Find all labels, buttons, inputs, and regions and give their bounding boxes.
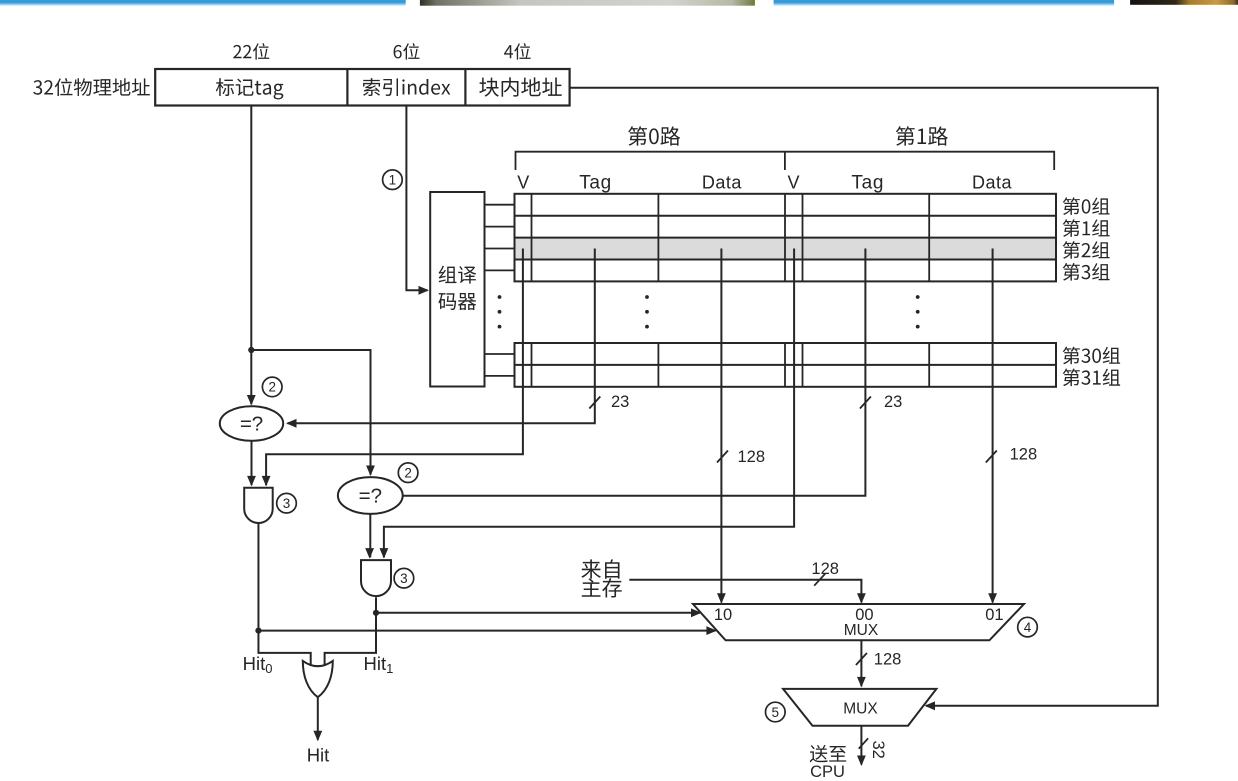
svg-text:128: 128 bbox=[811, 560, 839, 578]
svg-text:Hit0: Hit0 bbox=[243, 653, 273, 676]
circled 4 bbox=[1018, 617, 1038, 637]
wire Hit0 from AND1 bbox=[258, 523, 310, 666]
wire decoder output set 1 bbox=[485, 226, 515, 228]
register field divider index|offset bbox=[464, 69, 466, 106]
comparator 1 =? bbox=[220, 406, 283, 441]
label Hit1 bbox=[364, 653, 394, 676]
mux 4-input bbox=[693, 604, 1024, 640]
wire Hit1 from AND2 bbox=[325, 597, 376, 665]
svg-text:Data: Data bbox=[702, 173, 743, 193]
and gate U2 bbox=[361, 560, 391, 596]
wire MUX5 output to CPU bbox=[857, 726, 866, 766]
label from main memory bbox=[581, 559, 621, 597]
top banner blue bar left bbox=[0, 0, 406, 6]
label Hit0 bbox=[243, 653, 273, 676]
cache table rows 0-3 frame bbox=[515, 194, 1057, 282]
bus width 23 way1 bbox=[884, 393, 902, 411]
wire OR output Hit bbox=[313, 697, 322, 741]
label 22-bit width bbox=[233, 43, 269, 59]
label 6-bit width bbox=[394, 43, 420, 59]
bracket way spans bbox=[516, 152, 1055, 170]
and gate U1 bbox=[244, 488, 273, 523]
row label 第0组 bbox=[1063, 197, 1110, 215]
bus width 128 main memory bbox=[811, 560, 839, 578]
ellipsis decoder bbox=[498, 295, 502, 328]
wire tag branch to comparator 2 bbox=[251, 350, 375, 476]
label 32-bit physical address bbox=[33, 78, 150, 96]
ellipsis way0 bbox=[645, 295, 649, 328]
register 32-bit physical address box bbox=[155, 69, 569, 106]
circled 5 bbox=[766, 702, 786, 722]
svg-text:23: 23 bbox=[884, 393, 902, 411]
svg-text:128: 128 bbox=[1010, 446, 1038, 464]
wire block-offset to MUX5 select bbox=[570, 88, 1158, 710]
svg-text:Hit1: Hit1 bbox=[364, 653, 394, 676]
svg-text:5: 5 bbox=[772, 705, 780, 720]
wire decoder output set 2 bbox=[485, 248, 515, 250]
node junction Hit1 bbox=[373, 610, 379, 616]
bus slash Tag1 bbox=[860, 397, 871, 409]
circled 3 for and gate U2 bbox=[394, 568, 414, 588]
wire V0 to AND1 bbox=[262, 249, 523, 487]
node junction Hit0 bbox=[255, 628, 261, 634]
bus width 128 way1 bbox=[1010, 446, 1038, 464]
wire Tag1 to comparator 2 bbox=[403, 249, 866, 496]
wire decoder output set 0 bbox=[485, 204, 515, 206]
bus width 32 rotated bbox=[869, 741, 887, 759]
svg-text:3: 3 bbox=[400, 571, 408, 586]
label 4-bit width bbox=[504, 43, 531, 59]
label way 0 bbox=[628, 126, 680, 145]
wire comparator 2 output bbox=[365, 514, 374, 559]
top banner photo fragment right bbox=[1130, 0, 1238, 5]
top banner blue bar right bbox=[774, 0, 1115, 6]
wire decoder output set 3 bbox=[485, 269, 515, 271]
bus slash Data0 bbox=[717, 451, 728, 463]
top banner photo fragment center bbox=[420, 0, 755, 6]
column header V way0 bbox=[517, 173, 529, 193]
svg-text:Tag: Tag bbox=[579, 173, 612, 194]
row label 第3组 bbox=[1063, 263, 1110, 281]
svg-text:=?: =? bbox=[359, 485, 382, 508]
svg-text:V: V bbox=[517, 173, 529, 193]
svg-text:2: 2 bbox=[268, 380, 276, 395]
field label block offset bbox=[479, 77, 561, 96]
decoder box 组译码器 bbox=[430, 192, 484, 387]
column header Data way0 bbox=[702, 173, 743, 193]
svg-text:V: V bbox=[787, 173, 799, 193]
circled 1 bbox=[383, 170, 403, 190]
wire Data0 to MUX4 bbox=[717, 249, 726, 604]
svg-text:3: 3 bbox=[283, 496, 291, 511]
svg-text:128: 128 bbox=[738, 448, 766, 466]
bus width 23 way0 bbox=[611, 393, 629, 411]
label Hit bbox=[307, 745, 330, 766]
ellipsis way1 bbox=[916, 295, 920, 328]
svg-text:2: 2 bbox=[404, 466, 412, 481]
circled 3 for and gate U1 bbox=[277, 493, 297, 513]
wire Hit1 to MUX4 select bbox=[376, 608, 702, 617]
svg-text:4: 4 bbox=[1024, 620, 1032, 635]
wire Hit0 to MUX4 select bbox=[258, 626, 716, 635]
svg-text:Data: Data bbox=[972, 173, 1013, 193]
column header Data way1 bbox=[972, 173, 1013, 193]
wire index to decoder bbox=[406, 106, 429, 295]
bus slash Tag0 bbox=[589, 397, 600, 409]
comparator 2 =? bbox=[338, 477, 403, 514]
mux word-select bbox=[783, 689, 936, 726]
wire V1 to AND2 bbox=[380, 249, 795, 559]
svg-text:128: 128 bbox=[874, 651, 902, 669]
svg-text:MUX: MUX bbox=[844, 622, 879, 639]
cache row 2 highlight bbox=[515, 238, 1057, 260]
wire Tag0 to comparator 1 bbox=[286, 249, 595, 428]
column header V way1 bbox=[787, 173, 799, 193]
wire comparator 1 output bbox=[247, 441, 256, 487]
wire decoder output set 31 bbox=[485, 375, 515, 377]
cache table rows 30-31 frame bbox=[515, 343, 1057, 387]
svg-text:32: 32 bbox=[869, 741, 887, 759]
cache table rows 30-31 column lines bbox=[532, 343, 930, 387]
svg-text:Hit: Hit bbox=[307, 745, 330, 766]
row label 第31组 bbox=[1063, 369, 1120, 387]
bus slash MUX5 output bbox=[859, 738, 868, 748]
row label 第30组 bbox=[1063, 347, 1120, 365]
column header Tag way0 bbox=[579, 173, 612, 194]
bus width 128 MUX4 output bbox=[874, 651, 902, 669]
bus slash Data1 bbox=[986, 451, 997, 463]
wire Data1 to MUX4 bbox=[988, 249, 997, 604]
column header Tag way1 bbox=[851, 173, 884, 194]
bus slash MUX4 output bbox=[856, 653, 867, 665]
row label 第2组 bbox=[1063, 241, 1110, 259]
svg-text:CPU: CPU bbox=[810, 763, 845, 781]
bus slash main memory bbox=[814, 574, 825, 586]
svg-text:Tag: Tag bbox=[851, 173, 884, 194]
wire decoder output set 30 bbox=[485, 353, 515, 355]
svg-text:MUX: MUX bbox=[843, 701, 878, 718]
circled 2 for comparator 1 bbox=[262, 377, 282, 397]
wire tag output bbox=[247, 106, 256, 406]
field label tag bbox=[216, 78, 284, 99]
wire MUX4 output to MUX5 bbox=[857, 640, 866, 687]
svg-text:10: 10 bbox=[714, 606, 732, 624]
label to CPU bbox=[810, 745, 847, 781]
node junction on tag wire bbox=[248, 347, 254, 353]
svg-text:01: 01 bbox=[985, 606, 1003, 624]
bus width 128 way0 bbox=[738, 448, 766, 466]
cache table rows 0-3 column lines bbox=[532, 194, 930, 282]
circled 2 for comparator 2 bbox=[398, 463, 418, 483]
wire from main memory to MUX4 bbox=[629, 580, 866, 604]
field label index bbox=[363, 78, 450, 96]
svg-text:1: 1 bbox=[389, 173, 397, 188]
label way 1 bbox=[896, 126, 948, 145]
register field divider tag|index bbox=[346, 69, 348, 106]
row label 第1组 bbox=[1063, 219, 1110, 237]
svg-text:=?: =? bbox=[240, 413, 263, 436]
svg-text:23: 23 bbox=[611, 393, 629, 411]
or gate bbox=[303, 661, 333, 697]
